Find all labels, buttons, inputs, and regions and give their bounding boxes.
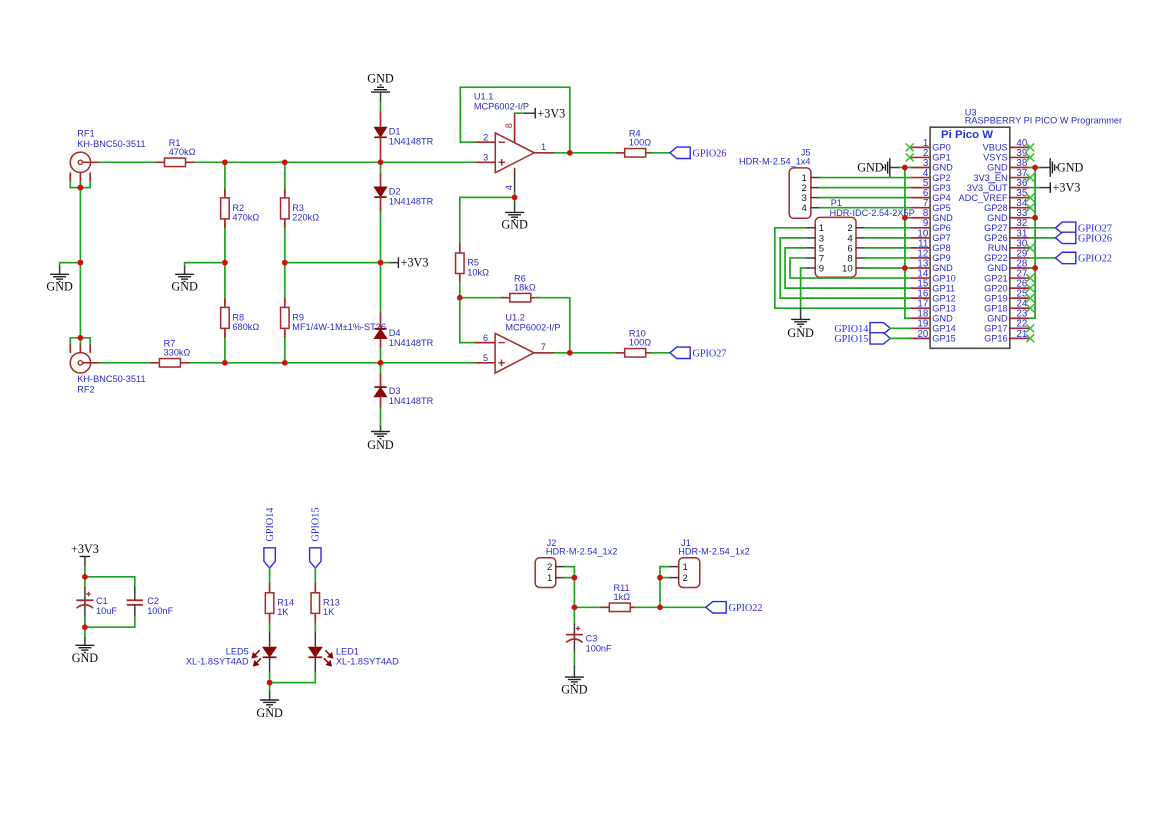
- svg-text:GP19: GP19: [984, 293, 1008, 303]
- wire RF1 shield to RF2 shield: [79, 188, 81, 338]
- wire J1 pin2: [660, 577, 670, 579]
- svg-text:HDR-M-2.54_1x4: HDR-M-2.54_1x4: [739, 157, 810, 167]
- junction R5/R6/pin6: [457, 295, 463, 301]
- svg-text:1N4148TR: 1N4148TR: [389, 396, 434, 406]
- U3 left pin 8 GND: [911, 208, 954, 223]
- junction row B / R9: [282, 360, 288, 366]
- U3 right pin 28 GND: [987, 258, 1029, 273]
- no-connect X pin 1: [906, 143, 914, 151]
- U3 left pin 18 GND: [911, 309, 954, 324]
- wire GPIO15 flag to R13: [314, 568, 316, 583]
- no-connect X pin 24: [1026, 304, 1034, 312]
- junction U1.1 output: [567, 150, 573, 156]
- wire C2 bottom to junction: [85, 626, 135, 628]
- svg-text:GND: GND: [857, 161, 884, 175]
- pin 1 output: [534, 152, 554, 154]
- wire J5 pin 3 to GP4: [820, 197, 911, 199]
- wire U1.1 pin4 to GND junction: [514, 193, 516, 197]
- svg-text:GND: GND: [932, 213, 953, 223]
- junction +3V3/C1/C2: [82, 574, 88, 580]
- connector J1 HDR-M-2.54_1x2: [670, 538, 750, 588]
- svg-text:GND: GND: [932, 313, 953, 323]
- pin 8: [514, 113, 516, 142]
- svg-text:1N4148TR: 1N4148TR: [389, 197, 434, 207]
- svg-text:18kΩ: 18kΩ: [514, 282, 536, 292]
- junction R2/R8 GND tap: [222, 260, 228, 266]
- svg-text:100nF: 100nF: [147, 606, 173, 616]
- svg-text:8: 8: [504, 123, 514, 128]
- net flag GPIO27 (pico): [1056, 222, 1076, 233]
- no-connect X pin 30: [1026, 244, 1034, 252]
- wire row A (RF1 signal): [100, 161, 156, 163]
- U3 right pin 39 VSYS: [983, 148, 1029, 163]
- wire J5 pin 2 to GP3: [820, 187, 911, 189]
- svg-text:GP21: GP21: [984, 273, 1008, 283]
- net flag GPIO14 (bottom): [264, 548, 275, 568]
- svg-text:R9: R9: [292, 312, 304, 322]
- junction GND pin13: [902, 265, 908, 271]
- net flag GPIO15 (pico): [870, 333, 890, 344]
- U3 left pin 13 GND: [911, 258, 954, 273]
- power +3V3 (left): [381, 256, 429, 270]
- svg-text:220kΩ: 220kΩ: [292, 212, 319, 222]
- wire to R11: [574, 606, 604, 608]
- junction right GND row 3: [1032, 165, 1038, 171]
- svg-text:4: 4: [802, 203, 808, 214]
- junction J2 pins: [572, 575, 578, 581]
- svg-text:GP9: GP9: [932, 253, 950, 263]
- svg-text:GP20: GP20: [984, 283, 1008, 293]
- svg-text:C1: C1: [96, 596, 108, 606]
- svg-text:GPIO22: GPIO22: [1078, 253, 1112, 264]
- wire P1 pin 2 to GP6: [865, 227, 911, 229]
- connector J2 HDR-M-2.54_1x2: [535, 538, 617, 588]
- wire GP27 to flag: [1029, 227, 1055, 229]
- junction main row / C3: [572, 605, 578, 611]
- junction GND pin3: [902, 165, 908, 171]
- svg-text:GPIO26: GPIO26: [693, 148, 727, 159]
- U3 right pin 26 GP20: [984, 279, 1029, 294]
- resistor R14 1K: [265, 583, 294, 623]
- U3 right pin 29 GP22: [984, 248, 1029, 263]
- svg-text:R3: R3: [292, 203, 304, 213]
- wire P1 pin 7 to GP10: [790, 258, 911, 278]
- svg-text:R5: R5: [467, 257, 479, 267]
- svg-text:D4: D4: [389, 328, 401, 338]
- svg-text:GND: GND: [1057, 161, 1084, 175]
- triangle body: [495, 133, 534, 173]
- U3 right pin 24 GP18: [984, 299, 1029, 314]
- svg-text:10uF: 10uF: [96, 606, 117, 616]
- U3 left pin 6 GP4: [911, 188, 951, 203]
- U3 left pin 4 GP2: [911, 168, 951, 183]
- wire right GND stub row 8: [1029, 217, 1035, 219]
- wire GP26 to flag: [1029, 237, 1055, 239]
- svg-text:GP22: GP22: [984, 253, 1008, 263]
- resistor R10: [616, 329, 654, 358]
- svg-text:XL-1.8SYT4AD: XL-1.8SYT4AD: [336, 657, 399, 667]
- ground top (above D1): [367, 71, 394, 92]
- svg-text:1N4148TR: 1N4148TR: [389, 137, 434, 147]
- svg-text:GPIO15: GPIO15: [311, 508, 322, 542]
- wire GP22 to flag: [1029, 257, 1055, 259]
- U3 right pin 25 GP19: [984, 289, 1029, 304]
- svg-text:GP27: GP27: [984, 223, 1008, 233]
- wire to R10: [570, 352, 620, 354]
- wire J5 pin 1 to GP2: [820, 177, 911, 179]
- wire right GND stub row 3: [1029, 167, 1035, 169]
- no-connect X pin 39: [1026, 153, 1034, 161]
- U3 right pin 37 3V3_EN: [973, 168, 1029, 183]
- svg-text:GND: GND: [561, 682, 588, 696]
- no-connect X pin 25: [1026, 294, 1034, 302]
- svg-text:GP28: GP28: [984, 203, 1008, 213]
- svg-text:1K: 1K: [323, 607, 335, 617]
- svg-text:U1.2: U1.2: [505, 312, 524, 322]
- svg-text:GND: GND: [932, 163, 953, 173]
- pin 6: [476, 342, 496, 344]
- svg-text:GND: GND: [256, 706, 283, 720]
- wire U1.2 output: [554, 352, 570, 354]
- junction row B / D column: [378, 360, 384, 366]
- wire P1 pin 5 to GP11: [785, 248, 910, 288]
- LED LED1 XL-1.8SYT4AD: [308, 632, 399, 673]
- svg-text:RF1: RF1: [77, 129, 94, 139]
- net flag GPIO26: [670, 147, 690, 158]
- no-connect X pin 26: [1026, 284, 1034, 292]
- svg-text:GP12: GP12: [932, 293, 956, 303]
- resistor R5: [456, 244, 490, 282]
- svg-text:GPIO27: GPIO27: [693, 348, 727, 359]
- net flag GPIO15 (bottom): [310, 548, 321, 568]
- svg-text:R14: R14: [277, 597, 294, 607]
- svg-text:330kΩ: 330kΩ: [164, 348, 191, 358]
- U3 right pin 21 GP16: [984, 329, 1029, 344]
- svg-text:GP17: GP17: [984, 324, 1008, 334]
- svg-text:GND: GND: [501, 217, 528, 231]
- U3 left pin 11 GP8: [911, 238, 951, 253]
- U3 right pin 22 GP17: [984, 319, 1029, 334]
- resistor R7: [151, 339, 191, 368]
- junction U1.2 output: [567, 350, 573, 356]
- svg-text:1N4148TR: 1N4148TR: [389, 338, 434, 348]
- pin 3: [476, 161, 496, 163]
- svg-text:3: 3: [483, 153, 488, 163]
- svg-text:2: 2: [683, 573, 688, 584]
- svg-text:+3V3: +3V3: [401, 256, 429, 270]
- svg-text:1: 1: [547, 573, 552, 584]
- svg-text:1: 1: [683, 562, 688, 573]
- svg-text:HDR-M-2.54_1x2: HDR-M-2.54_1x2: [678, 547, 749, 557]
- svg-text:100nF: 100nF: [586, 644, 612, 654]
- svg-text:100Ω: 100Ω: [629, 138, 651, 148]
- svg-text:MF1/4W-1M±1%-ST26: MF1/4W-1M±1%-ST26: [292, 322, 386, 332]
- svg-text:10: 10: [842, 263, 853, 274]
- svg-text:+3V3: +3V3: [1053, 181, 1081, 195]
- pin 5: [476, 362, 496, 364]
- power +3V3 (C1 section): [71, 542, 99, 577]
- svg-text:470kΩ: 470kΩ: [169, 147, 196, 157]
- U3 right pin 23 GND: [987, 309, 1029, 324]
- no-connect X pin 37: [1026, 174, 1034, 182]
- wire junction to C2: [85, 577, 135, 588]
- svg-text:100Ω: 100Ω: [629, 338, 651, 348]
- U3 left pin 17 GP13: [911, 299, 956, 314]
- wire P1 pin 8 to GP9: [865, 257, 911, 259]
- wire GND to D1: [380, 92, 382, 102]
- svg-text:VSYS: VSYS: [983, 153, 1008, 163]
- wire R10 to GPIO27 flag: [651, 352, 670, 354]
- wire R14 to LED: [269, 623, 271, 632]
- svg-text:C2: C2: [147, 596, 159, 606]
- svg-text:GP4: GP4: [932, 193, 950, 203]
- svg-text:4: 4: [504, 185, 514, 190]
- wire junction up to J1 pin1: [660, 567, 670, 608]
- ground GND1: [50, 274, 69, 281]
- wire +3V3 row: [285, 262, 381, 264]
- svg-text:+3V3: +3V3: [71, 542, 99, 556]
- wire P1 pin 3 to GP12: [780, 238, 910, 298]
- triangle body: [495, 333, 534, 373]
- pin 2: [476, 141, 495, 143]
- svg-text:VBUS: VBUS: [983, 143, 1008, 153]
- op-amp U1.2 MCP6002-I/P: [476, 312, 561, 373]
- wire to GND1: [60, 263, 81, 267]
- wire P1 pin 1 to GP13: [775, 228, 911, 308]
- svg-text:GND: GND: [932, 263, 953, 273]
- wire U1.1 feedback loop: [460, 87, 570, 152]
- svg-text:21: 21: [1016, 329, 1027, 340]
- junction GND pin8: [902, 215, 908, 221]
- wire junction to GPIO22 flag: [660, 606, 706, 608]
- junction LED cathodes: [267, 680, 273, 686]
- wire to GND2: [185, 263, 225, 267]
- ground P1: [791, 319, 810, 326]
- U3 left pin 3 GND: [911, 158, 954, 173]
- svg-text:GPIO22: GPIO22: [729, 603, 763, 614]
- svg-text:GP7: GP7: [932, 233, 950, 243]
- svg-text:KH-BNC50-3511: KH-BNC50-3511: [77, 374, 145, 384]
- svg-text:1K: 1K: [277, 607, 289, 617]
- connector P1 HDR-IDC-2.54-2X5P: [806, 198, 915, 277]
- svg-text:GP26: GP26: [984, 233, 1008, 243]
- diode D4 1N4148TR: [374, 263, 433, 363]
- wire R4 to GPIO26 flag: [651, 152, 670, 154]
- ground GND2: [175, 274, 194, 281]
- wire P1 pin 10 to GND pin13: [865, 267, 905, 269]
- svg-text:GPIO15: GPIO15: [834, 334, 868, 345]
- resistor R3: [281, 189, 320, 227]
- wire J2 pin2 down to pin1: [565, 567, 575, 578]
- svg-text:GP15: GP15: [932, 334, 956, 344]
- junction right GND row 13: [1032, 265, 1038, 271]
- svg-text:6: 6: [483, 333, 488, 343]
- LED LED5 XL-1.8SYT4AD: [186, 632, 277, 673]
- junction R3/R9 +3V3 tap: [282, 260, 288, 266]
- svg-text:ADC_VREF: ADC_VREF: [959, 193, 1008, 203]
- svg-text:P1: P1: [831, 198, 842, 208]
- wire row B (RF2 signal): [100, 362, 151, 364]
- power +3V3 at pin 36: [1029, 181, 1080, 195]
- wire R5 to feedback junction: [459, 282, 461, 298]
- svg-text:D1: D1: [389, 127, 401, 137]
- wire GPIO14 flag to R14: [269, 568, 271, 583]
- junction RF1 shield: [78, 185, 84, 191]
- svg-text:GND: GND: [367, 71, 394, 85]
- BNC connector RF1: [70, 129, 145, 182]
- U3 right pin 31 GP26: [984, 228, 1029, 243]
- resistor R1: [156, 138, 196, 167]
- svg-text:RASPBERRY PI PICO W Programmer: RASPBERRY PI PICO W Programmer: [965, 116, 1122, 126]
- svg-text:MCP6002-I/P: MCP6002-I/P: [505, 322, 560, 332]
- svg-text:R2: R2: [232, 203, 244, 213]
- U3 left pin 10 GP7: [911, 228, 951, 243]
- svg-text:9: 9: [819, 263, 824, 274]
- resistor R6: [501, 273, 539, 302]
- wire RF1 shield U: [70, 182, 90, 188]
- svg-text:GP5: GP5: [932, 203, 950, 213]
- svg-text:GP18: GP18: [984, 303, 1008, 313]
- svg-text:GP8: GP8: [932, 243, 950, 253]
- diode D2 1N4148TR: [374, 162, 433, 262]
- U3 left pin 2 GP1: [911, 148, 951, 163]
- junction RF2 shield: [78, 335, 84, 341]
- wire pin8 stub: [905, 217, 911, 219]
- U3 right pin 38 GND: [987, 158, 1029, 173]
- U3 right pin 27 GP21: [984, 268, 1029, 283]
- wire J2 pin1: [565, 577, 575, 579]
- svg-text:U1.1: U1.1: [474, 92, 493, 102]
- svg-text:680kΩ: 680kΩ: [232, 322, 259, 332]
- wire junction down to U1.2 pin 6: [460, 298, 476, 343]
- wire pin3 stub: [905, 167, 911, 169]
- wire GND junction to R5: [460, 197, 515, 244]
- IC U3 RASPBERRY PI PICO W: [930, 108, 1122, 349]
- junction row A / D column: [378, 160, 384, 166]
- wire J2 to main row: [573, 578, 575, 608]
- U3 left pin 14 GP10: [911, 268, 956, 283]
- svg-text:GND: GND: [46, 280, 73, 294]
- junction J1 pin2: [657, 575, 663, 581]
- ground LEDs: [256, 683, 283, 720]
- svg-text:KH-BNC50-3511: KH-BNC50-3511: [77, 139, 145, 149]
- svg-text:GND: GND: [171, 280, 198, 294]
- U3 left pin 16 GP12: [911, 289, 956, 304]
- resistor R13 1K: [311, 583, 340, 623]
- svg-text:LED5: LED5: [226, 647, 249, 657]
- svg-text:GND: GND: [987, 263, 1008, 273]
- wire LED5 to junction: [269, 673, 271, 683]
- wire pin13 stub: [905, 267, 911, 269]
- ground flag left of pin 3: [857, 158, 905, 177]
- power +3V3 at U1.1 pin 8: [515, 106, 566, 120]
- svg-text:GP13: GP13: [932, 303, 956, 313]
- svg-text:XL-1.8SYT4AD: XL-1.8SYT4AD: [186, 657, 249, 667]
- svg-text:R13: R13: [323, 597, 340, 607]
- pin 7 output: [534, 352, 554, 354]
- ground below D3: [371, 432, 390, 439]
- svg-text:GPIO14: GPIO14: [265, 508, 276, 542]
- svg-text:HDR-IDC-2.54-2X5P: HDR-IDC-2.54-2X5P: [830, 208, 915, 218]
- wire P1 pin 4 to GP7: [865, 237, 911, 239]
- svg-text:RF2: RF2: [77, 385, 94, 395]
- junction C1/C2 bottom: [82, 624, 88, 630]
- resistor R9: [281, 299, 386, 337]
- svg-text:GP1: GP1: [932, 153, 950, 163]
- no-connect X pin 34: [1026, 204, 1034, 212]
- svg-text:GND: GND: [72, 651, 99, 665]
- U3 left pin 5 GP3: [911, 178, 951, 193]
- U3 left pin 20 GP15: [911, 329, 956, 344]
- svg-text:D3: D3: [389, 386, 401, 396]
- U3 left pin 15 GP11: [911, 279, 956, 294]
- U3 right pin 36 3V3_OUT: [967, 178, 1030, 193]
- svg-text:2: 2: [483, 133, 488, 143]
- svg-text:GP16: GP16: [984, 334, 1008, 344]
- junction row A / R2: [222, 160, 228, 166]
- wire GPIO15 flag to GP15: [890, 337, 910, 339]
- resistor R8: [221, 299, 260, 337]
- U3 left pin 19 GP14: [911, 319, 956, 334]
- svg-text:1: 1: [541, 142, 546, 152]
- junction +3V3 / D column: [378, 260, 384, 266]
- junction row B / R8: [222, 360, 228, 366]
- BNC connector RF2: [70, 344, 145, 395]
- svg-text:7: 7: [541, 342, 546, 352]
- wire U1.1 output to junction: [555, 152, 570, 154]
- net flag GPIO27: [670, 347, 690, 358]
- U3 right pin 33 GND: [987, 208, 1029, 223]
- resistor R2: [221, 189, 260, 227]
- U3 right pin 40 VBUS: [983, 138, 1030, 153]
- ground opamp: [501, 197, 528, 231]
- svg-text:GPIO26: GPIO26: [1078, 233, 1112, 244]
- wire GPIO14 flag to GP14: [890, 327, 910, 329]
- svg-text:GP0: GP0: [932, 143, 950, 153]
- svg-text:GP3: GP3: [932, 183, 950, 193]
- wire R6 to U1.2 output: [536, 298, 570, 353]
- wire R2 column: [224, 162, 226, 193]
- junction R11/J1/GPIO22: [657, 605, 663, 611]
- svg-text:GND: GND: [987, 313, 1008, 323]
- U3 left pin 12 GP9: [911, 248, 951, 263]
- wire output row to R4: [570, 152, 620, 154]
- junction GND tap: [78, 260, 84, 266]
- wire RF2 shield U: [70, 338, 90, 344]
- svg-text:LED1: LED1: [336, 647, 359, 657]
- junction opamp GND: [512, 195, 518, 201]
- svg-text:GP14: GP14: [932, 324, 956, 334]
- net flag GPIO22 (pico): [1056, 252, 1076, 263]
- wire P1 pin 6 to GP8: [865, 247, 911, 249]
- junction dots top layer: [78, 150, 1038, 685]
- svg-text:GND: GND: [987, 163, 1008, 173]
- resistor R11: [601, 583, 639, 612]
- svg-text:+3V3: +3V3: [537, 106, 565, 120]
- no-connect X pin 27: [1026, 274, 1034, 282]
- pin 4: [514, 169, 516, 174]
- svg-text:D2: D2: [389, 187, 401, 197]
- net flag GPIO14 (pico): [870, 323, 890, 334]
- svg-text:GP2: GP2: [932, 173, 950, 183]
- capacitor C1 10uF: [76, 577, 117, 627]
- U3 right pin 32 GP27: [984, 218, 1029, 233]
- op-amp U1.1 MCP6002-I/P: [460, 87, 570, 193]
- U3 left pin 7 GP5: [911, 198, 951, 213]
- svg-text:HDR-M-2.54_1x2: HDR-M-2.54_1x2: [546, 547, 617, 557]
- U3 right pin 34 GP28: [984, 198, 1029, 213]
- svg-text:2: 2: [547, 562, 552, 573]
